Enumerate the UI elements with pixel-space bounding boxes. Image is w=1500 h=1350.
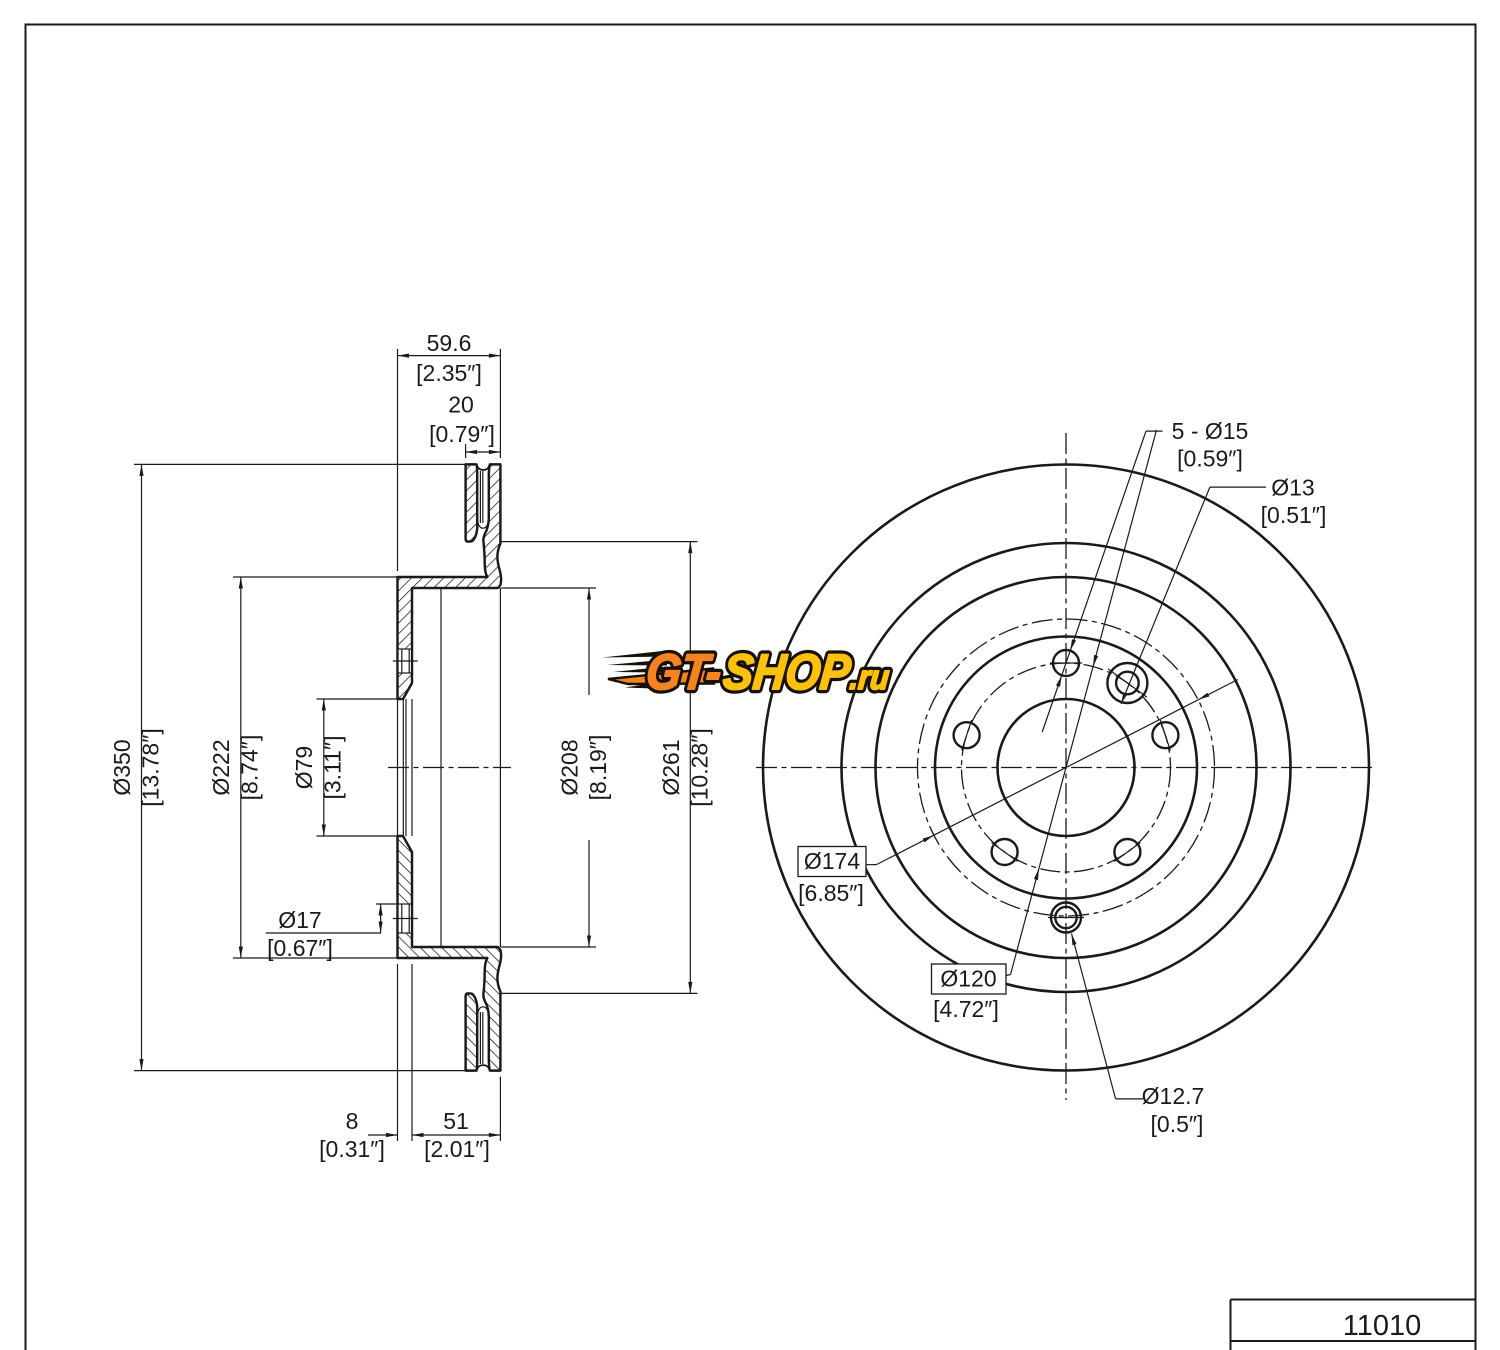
svg-text:[0.51″]: [0.51″] (1261, 502, 1327, 528)
dimension line Ø120 through center (1011, 430, 1157, 975)
svg-text:[8.74″]: [8.74″] (237, 735, 263, 801)
svg-text:[10.28″]: [10.28″] (687, 728, 713, 806)
center bore Ø79 edge lines (402, 699, 404, 836)
svg-text:Ø350: Ø350 (109, 739, 135, 795)
wheel bolt hole Ø15 #1 (1053, 650, 1079, 676)
label box Ø174 (798, 847, 866, 877)
svg-text:[6.85″]: [6.85″] (798, 880, 864, 906)
svg-text:5 - Ø15: 5 - Ø15 (1172, 418, 1249, 444)
leader Ø13 (1210, 486, 1266, 488)
extension lines 59.6 dim (397, 349, 399, 571)
extension line 20 dim (465, 444, 467, 458)
svg-text:[2.01″]: [2.01″] (424, 1136, 490, 1162)
svg-text:[4.72″]: [4.72″] (933, 996, 999, 1022)
extension lines 8 and 51 dims (397, 964, 399, 1141)
svg-text:[2.35″]: [2.35″] (416, 360, 482, 386)
svg-text:[13.78″]: [13.78″] (138, 728, 164, 806)
hat inner bore silhouette edge (499, 588, 501, 947)
dimension Ø17 leader and arrows (266, 932, 381, 934)
wheel bolt hole Ø15 #3 (992, 839, 1018, 865)
dimension line Ø222 (240, 577, 242, 958)
svg-text:[0.59″]: [0.59″] (1177, 446, 1243, 472)
vent slot rounded end (bottom) (477, 1007, 488, 1016)
leader 5-Ø15 (1146, 430, 1163, 432)
vent channel opening notch at OD (top) (477, 463, 490, 470)
svg-text:Ø12.7: Ø12.7 (1142, 1083, 1205, 1109)
left view axis centerline (388, 767, 511, 769)
svg-text:59.6: 59.6 (427, 330, 472, 356)
wheel bolt hole Ø15 #4 (1114, 839, 1140, 865)
dimension line Ø350 (141, 464, 143, 1070)
svg-text:Ø79: Ø79 (291, 746, 317, 789)
svg-text:GT-: GT- (644, 645, 724, 701)
svg-text:Ø174: Ø174 (804, 848, 860, 874)
center bore circle Ø79 (998, 699, 1135, 836)
title block (1231, 1299, 1476, 1301)
svg-text:Ø261: Ø261 (658, 739, 684, 795)
hub inner corner tangent edge (440, 588, 442, 947)
svg-text:20: 20 (448, 392, 474, 418)
wheel bolt hole Ø15 #5 (1152, 722, 1178, 748)
svg-text:SHOP: SHOP (721, 645, 853, 701)
svg-text:11010: 11010 (1343, 1310, 1422, 1342)
svg-text:.ru: .ru (848, 659, 891, 697)
bolt circle Ø120 (centerline) (962, 663, 1171, 872)
vent slot rounded end (top) (477, 520, 488, 529)
circle Ø261 ring inner diameter (842, 543, 1291, 992)
svg-text:[0.31″]: [0.31″] (319, 1136, 385, 1162)
dimension line Ø174 through center (876, 680, 1237, 865)
dimension line 8 (368, 1134, 398, 1136)
gt-shop.ru watermark logo (602, 645, 892, 701)
dimension line Ø79 (323, 699, 325, 836)
gt-shop.ru watermark speed streaks (602, 651, 714, 690)
dimension line Ø261 (689, 542, 691, 994)
wheel bolt hole Ø15 #2 (954, 722, 980, 748)
svg-text:[8.19″]: [8.19″] (585, 735, 611, 801)
cooling vane edges in slot (top) (479, 471, 481, 523)
svg-text:Ø208: Ø208 (557, 739, 583, 795)
front view vertical centerline (1065, 433, 1067, 1100)
dimension line Ø208 (588, 588, 590, 695)
extension lines Ø79 (317, 698, 400, 700)
wheel bolt hole in flange (top section cut) (399, 649, 411, 673)
svg-text:Ø17: Ø17 (278, 907, 321, 933)
hat section: flange + hat wall + neck + right plate (bottom, hatched) (398, 836, 502, 1071)
svg-text:Ø13: Ø13 (1271, 475, 1314, 501)
hat section: flange + hat wall + neck + right plate (top, hatched) (398, 464, 502, 699)
extension lines Ø261 (500, 541, 697, 543)
front view horizontal centerline (756, 767, 1374, 769)
hole Ø17 in flange (bottom section cut) (399, 904, 411, 933)
hub step circle (935, 637, 1197, 899)
svg-text:Ø222: Ø222 (208, 739, 234, 795)
extension lines Ø208 (501, 587, 596, 589)
extension lines Ø222 (233, 576, 398, 578)
svg-text:[0.67″]: [0.67″] (267, 935, 333, 961)
dimension line 59.6 (398, 355, 501, 357)
cooling vane edges in slot (bottom) (479, 1012, 481, 1064)
svg-text:[0.5″]: [0.5″] (1151, 1111, 1204, 1137)
svg-text:51: 51 (443, 1108, 469, 1134)
dimension line 51 (412, 1134, 500, 1136)
svg-text:[3.11″]: [3.11″] (320, 736, 346, 800)
svg-text:Ø120: Ø120 (940, 966, 996, 992)
extension lines Ø350 (134, 463, 466, 465)
leader Ø12.7 (1116, 1098, 1143, 1100)
svg-text:[0.79″]: [0.79″] (429, 421, 495, 447)
extension line Ø17 top (376, 903, 398, 905)
dimension line 20 (466, 451, 501, 453)
label box Ø120 (932, 964, 1007, 994)
vent channel opening notch at OD (bottom) (477, 1065, 490, 1072)
bolt circle Ø174 (centerline) (918, 619, 1215, 916)
circle Ø222 hat outer diameter (876, 577, 1257, 958)
hole Ø12.7 with chamfer ring at bottom (1055, 907, 1076, 928)
friction ring left plate (top, hatched section) (466, 464, 478, 541)
hole Ø13 with counterbore (1116, 672, 1139, 695)
gt-shop.ru watermark text (644, 645, 892, 701)
friction ring left plate (bottom, hatched section) (466, 993, 478, 1070)
disc outer circle Ø350 (763, 465, 1369, 1071)
svg-text:8: 8 (346, 1108, 359, 1134)
